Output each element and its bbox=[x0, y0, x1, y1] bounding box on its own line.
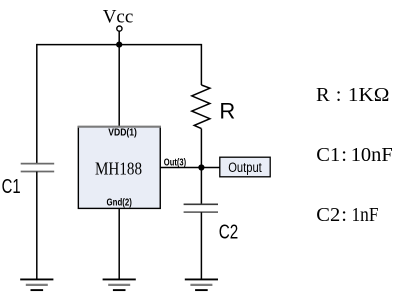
svg-text:Out(3): Out(3) bbox=[164, 157, 186, 168]
chip name MH188 bbox=[95, 158, 142, 178]
wire Vcc rail down to resistor bbox=[200, 44, 202, 85]
wire C2 bottom to ground bbox=[200, 212, 202, 279]
pin label Out(3) bbox=[164, 157, 186, 168]
svg-text::: : bbox=[341, 204, 347, 226]
wire resistor bottom to C2 bbox=[200, 129, 202, 205]
node Vcc label bbox=[103, 7, 134, 28]
wire top horizontal bbox=[37, 44, 202, 46]
pin label Gnd(2) bbox=[107, 197, 132, 208]
junction dot at output node bbox=[198, 164, 204, 170]
junction dot at Vcc rail bbox=[116, 42, 122, 48]
wire chip Gnd pin to ground bbox=[118, 208, 120, 279]
ground G1 (left) bbox=[20, 279, 53, 290]
svg-text:C1: C1 bbox=[2, 176, 21, 198]
wire left vertical to C1 top bbox=[36, 44, 38, 163]
label C1 bbox=[2, 176, 21, 198]
svg-text:10nF: 10nF bbox=[351, 144, 393, 166]
wire Vcc circle to chip VDD pin bbox=[118, 31, 120, 127]
Vcc terminal circle bbox=[117, 26, 122, 31]
value label C2 : 1nF bbox=[316, 204, 378, 226]
value label C1 : 10nF bbox=[316, 144, 392, 166]
svg-text:R: R bbox=[219, 98, 235, 123]
pin label VDD(1) bbox=[108, 127, 137, 138]
svg-text:Vcc: Vcc bbox=[103, 7, 134, 28]
label R bbox=[219, 98, 235, 123]
capacitor C2 plates bbox=[184, 204, 218, 212]
output box bbox=[220, 157, 270, 177]
svg-text::: : bbox=[336, 84, 342, 106]
label C2 bbox=[219, 221, 239, 243]
svg-text:MH188: MH188 bbox=[95, 158, 142, 178]
svg-text:R: R bbox=[316, 84, 330, 106]
svg-text:C1: C1 bbox=[316, 144, 340, 166]
ground G2 (center) bbox=[103, 279, 136, 290]
svg-text:C2: C2 bbox=[316, 204, 340, 226]
wire Out(3) pin to output box bbox=[160, 167, 220, 169]
svg-text:1nF: 1nF bbox=[352, 204, 379, 226]
resistor R1 zigzag bbox=[192, 85, 210, 129]
wire C1 bottom to ground bbox=[36, 172, 38, 280]
capacitor C1 plates bbox=[21, 164, 55, 172]
svg-text::: : bbox=[341, 144, 347, 166]
value label R : 1KOhm bbox=[316, 84, 389, 106]
svg-text:1KΩ: 1KΩ bbox=[348, 84, 390, 106]
svg-text:VDD(1): VDD(1) bbox=[108, 127, 137, 138]
ground G3 (right) bbox=[185, 279, 218, 290]
svg-text:Output: Output bbox=[228, 160, 262, 175]
svg-text:Gnd(2): Gnd(2) bbox=[107, 197, 132, 208]
svg-text:C2: C2 bbox=[219, 221, 239, 243]
chip U1 MH188 body bbox=[78, 127, 161, 209]
